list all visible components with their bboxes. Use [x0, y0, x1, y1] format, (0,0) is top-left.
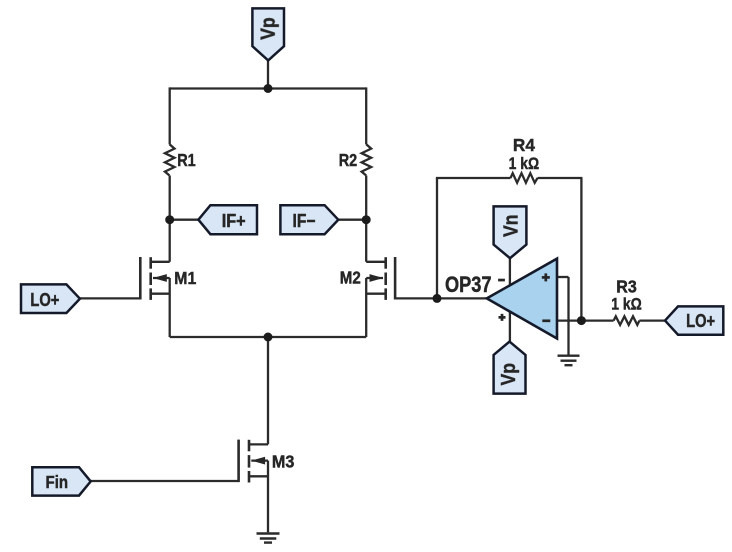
svg-text:LO+: LO+: [686, 311, 715, 331]
svg-text:M1: M1: [174, 268, 196, 288]
svg-text:LO+: LO+: [30, 290, 59, 310]
svg-text:OP37: OP37: [445, 272, 492, 297]
svg-text:IF−: IF−: [293, 211, 316, 231]
svg-text:Vp: Vp: [257, 17, 280, 39]
svg-text:Vn: Vn: [499, 214, 522, 237]
svg-text:Vp: Vp: [497, 363, 520, 386]
svg-text:R3: R3: [616, 276, 637, 296]
svg-text:R4: R4: [513, 135, 535, 155]
svg-text:R1: R1: [177, 150, 196, 170]
svg-text:IF+: IF+: [222, 211, 246, 231]
svg-text:M2: M2: [340, 268, 361, 288]
svg-text:M3: M3: [272, 452, 295, 472]
svg-text:Fin: Fin: [46, 472, 69, 492]
svg-text:1 kΩ: 1 kΩ: [509, 155, 540, 173]
svg-text:R2: R2: [339, 150, 358, 170]
svg-text:1 kΩ: 1 kΩ: [611, 296, 642, 314]
